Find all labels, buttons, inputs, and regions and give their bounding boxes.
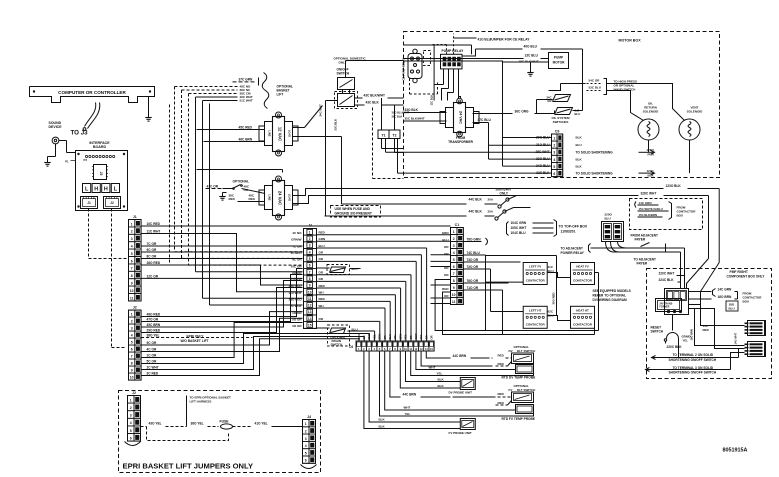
svg-text:OR: OR xyxy=(383,335,387,339)
svg-text:SHORTENING ON/OFF SWITCH: SHORTENING ON/OFF SWITCH xyxy=(669,358,717,362)
svg-text:2: 2 xyxy=(305,429,307,433)
svg-text:RED: RED xyxy=(498,392,505,396)
svg-text:BLK: BLK xyxy=(576,164,583,168)
svg-text:YEL: YEL xyxy=(419,334,423,340)
svg-text:6: 6 xyxy=(131,348,133,352)
svg-text:8: 8 xyxy=(131,274,133,278)
svg-text:123O BLK: 123O BLK xyxy=(666,184,682,188)
svg-text:P1: P1 xyxy=(65,160,69,164)
svg-text:JUMPER FOR CE RELAY: JUMPER FOR CE RELAY xyxy=(490,38,531,42)
svg-text:6: 6 xyxy=(453,265,455,269)
svg-text:RED: RED xyxy=(442,287,449,291)
svg-text:FRYER: FRYER xyxy=(635,238,646,242)
svg-text:WHT: WHT xyxy=(414,333,418,339)
svg-text:328C WHT: 328C WHT xyxy=(641,192,657,196)
svg-text:PUMP RELAY: PUMP RELAY xyxy=(442,49,465,53)
svg-text:5: 5 xyxy=(130,429,132,433)
svg-text:8051915A: 8051915A xyxy=(723,448,748,454)
svg-text:ONLY: ONLY xyxy=(500,192,509,196)
svg-text:43O YEL: 43O YEL xyxy=(149,422,162,426)
svg-text:PUR: PUR xyxy=(648,153,655,157)
svg-text:33O BLK: 33O BLK xyxy=(405,108,419,112)
svg-text:104C GRN: 104C GRN xyxy=(511,221,527,225)
svg-text:RED: RED xyxy=(498,362,505,366)
svg-text:RED: RED xyxy=(319,297,326,301)
svg-text:GRN: GRN xyxy=(319,237,326,241)
svg-text:TO SOLID SHORTENING: TO SOLID SHORTENING xyxy=(576,150,614,154)
svg-text:BLU: BLU xyxy=(352,328,358,332)
svg-text:FRYER: FRYER xyxy=(637,262,648,266)
svg-text:11: 11 xyxy=(308,297,312,301)
svg-text:220C BLK: 220C BLK xyxy=(667,345,683,349)
svg-text:OR: OR xyxy=(393,335,397,339)
svg-text:LINE: LINE xyxy=(268,131,272,137)
svg-text:1: 1 xyxy=(453,230,455,234)
svg-text:TRANSFORMER: TRANSFORMER xyxy=(448,140,473,144)
svg-text:T2: T2 xyxy=(393,133,397,137)
svg-text:YEL: YEL xyxy=(683,339,689,343)
svg-text:10: 10 xyxy=(452,293,456,297)
svg-text:W/O BASKET LIFT: W/O BASKET LIFT xyxy=(181,339,209,343)
svg-text:43C BLK/WHT: 43C BLK/WHT xyxy=(364,94,385,98)
svg-text:24 VAC: 24 VAC xyxy=(278,191,283,205)
svg-text:2C WHT: 2C WHT xyxy=(290,304,302,308)
svg-text:2: 2 xyxy=(131,230,133,234)
svg-text:YEL: YEL xyxy=(404,334,408,340)
svg-text:SWITCH: SWITCH xyxy=(651,330,664,334)
svg-text:TO SOLID SHORTENING: TO SOLID SHORTENING xyxy=(576,171,614,175)
svg-text:72O OR: 72O OR xyxy=(467,265,479,269)
svg-text:3: 3 xyxy=(553,151,555,155)
svg-text:SEE EQUIPPED MODELS: SEE EQUIPPED MODELS xyxy=(593,289,631,293)
svg-text:5: 5 xyxy=(131,341,133,345)
svg-text:7: 7 xyxy=(453,272,455,276)
svg-text:35C BLK/WHT: 35C BLK/WHT xyxy=(405,117,425,121)
svg-text:BLU: BLU xyxy=(575,112,581,116)
svg-text:LINE: LINE xyxy=(268,195,272,201)
svg-text:44C BLK: 44C BLK xyxy=(469,210,483,214)
svg-text:8: 8 xyxy=(453,279,455,283)
svg-text:USE WHEN FUSE AND: USE WHEN FUSE AND xyxy=(335,207,371,211)
svg-text:29O RED: 29O RED xyxy=(289,298,303,302)
svg-text:CONTACTOR: CONTACTOR xyxy=(526,279,546,283)
svg-text:10: 10 xyxy=(130,289,134,293)
svg-text:34C WHT: 34C WHT xyxy=(319,104,323,117)
svg-text:OR: OR xyxy=(362,335,366,339)
svg-text:73O OR: 73O OR xyxy=(467,258,479,262)
svg-text:1: 1 xyxy=(130,398,132,402)
svg-text:BLU: BLU xyxy=(388,334,392,340)
svg-text:1: 1 xyxy=(131,222,133,226)
svg-text:5: 5 xyxy=(553,165,555,169)
svg-text:BRN: BRN xyxy=(398,334,402,340)
svg-text:224C BLK: 224C BLK xyxy=(659,278,675,282)
svg-text:45C RED: 45C RED xyxy=(239,126,253,130)
svg-text:4: 4 xyxy=(553,158,555,162)
svg-text:1: 1 xyxy=(305,422,307,426)
svg-text:MOTOR BOX: MOTOR BOX xyxy=(619,39,642,43)
svg-text:13C BLU: 13C BLU xyxy=(525,54,539,58)
svg-text:BLK: BLK xyxy=(438,384,445,388)
svg-text:SWITCH: SWITCH xyxy=(331,343,343,347)
svg-text:WH: WH xyxy=(319,304,324,308)
svg-text:74C BLU: 74C BLU xyxy=(467,251,481,255)
svg-text:78O GRN: 78O GRN xyxy=(467,237,482,241)
svg-text:7: 7 xyxy=(131,355,133,359)
svg-text:BLK: BLK xyxy=(648,173,655,177)
svg-text:FV PROBE UNIT: FV PROBE UNIT xyxy=(449,431,472,435)
svg-text:J1: J1 xyxy=(133,215,137,219)
svg-text:20A: 20A xyxy=(488,198,494,202)
svg-text:6: 6 xyxy=(309,264,311,268)
svg-text:OR: OR xyxy=(430,335,434,339)
svg-text:BLU: BLU xyxy=(729,307,735,311)
svg-text:9: 9 xyxy=(309,284,311,288)
svg-text:9: 9 xyxy=(453,286,455,290)
svg-text:105C WHT: 105C WHT xyxy=(511,226,527,230)
svg-text:5: 5 xyxy=(453,258,455,262)
svg-text:28O RED: 28O RED xyxy=(289,284,303,288)
svg-text:10: 10 xyxy=(308,290,312,294)
svg-text:BRN: BRN xyxy=(378,334,382,340)
svg-text:RED: RED xyxy=(319,284,326,288)
svg-text:25C WHT: 25C WHT xyxy=(536,150,550,154)
svg-text:4: 4 xyxy=(305,444,307,448)
svg-text:H: H xyxy=(94,187,98,193)
svg-text:6: 6 xyxy=(131,259,133,263)
svg-text:C6: C6 xyxy=(349,345,353,349)
svg-text:LEFT FV: LEFT FV xyxy=(529,265,541,269)
svg-text:10: 10 xyxy=(130,376,134,380)
svg-text:6: 6 xyxy=(130,436,132,440)
svg-text:12: 12 xyxy=(308,304,312,308)
svg-text:1: 1 xyxy=(309,230,311,234)
svg-text:BLU: BLU xyxy=(319,244,325,248)
svg-text:15C WHT/H E/BLU: 15C WHT/H E/BLU xyxy=(639,207,663,211)
svg-text:12C BLK: 12C BLK xyxy=(430,95,434,106)
svg-text:YEL: YEL xyxy=(437,372,443,376)
svg-text:7: 7 xyxy=(131,267,133,271)
svg-text:C9: C9 xyxy=(555,130,560,134)
svg-text:OR: OR xyxy=(424,335,428,339)
svg-text:4: 4 xyxy=(453,251,455,255)
svg-text:37C GRN: 37C GRN xyxy=(239,78,254,82)
svg-text:BLK: BLK xyxy=(576,157,583,161)
svg-text:PUMP: PUMP xyxy=(554,56,564,60)
svg-text:38C BLK: 38C BLK xyxy=(392,115,403,119)
svg-text:125O: 125O xyxy=(647,148,655,152)
svg-text:J1: J1 xyxy=(87,201,91,205)
svg-text:T1: T1 xyxy=(382,133,386,137)
svg-text:9: 9 xyxy=(131,281,133,285)
svg-text:TO ADJACENT: TO ADJACENT xyxy=(561,247,584,251)
svg-text:8C OR: 8C OR xyxy=(292,258,302,262)
svg-text:TO TOP-OFF BOX: TO TOP-OFF BOX xyxy=(559,225,588,229)
svg-text:1: 1 xyxy=(553,137,555,141)
svg-text:BLK: BLK xyxy=(438,378,445,382)
svg-text:2: 2 xyxy=(309,237,311,241)
svg-text:H: H xyxy=(104,187,108,193)
svg-text:2: 2 xyxy=(453,237,455,241)
svg-text:6: 6 xyxy=(553,172,555,176)
svg-text:43C BLK: 43C BLK xyxy=(366,101,380,105)
svg-text:4: 4 xyxy=(131,244,133,248)
svg-text:BOX: BOX xyxy=(743,300,750,304)
svg-text:BOX: BOX xyxy=(677,214,684,218)
svg-text:BLK: BLK xyxy=(379,418,386,422)
svg-text:8: 8 xyxy=(131,362,133,366)
svg-text:FUSE: FUSE xyxy=(220,420,230,424)
svg-text:14: 14 xyxy=(308,317,312,321)
svg-text:46C BRN: 46C BRN xyxy=(239,138,253,142)
svg-text:54C OR: 54C OR xyxy=(589,79,601,83)
svg-text:30O RED: 30O RED xyxy=(552,293,556,305)
svg-text:FMF RIGHT: FMF RIGHT xyxy=(730,270,749,274)
svg-text:20A: 20A xyxy=(488,210,494,214)
svg-text:COMPONENT BOX ONLY: COMPONENT BOX ONLY xyxy=(727,275,766,279)
svg-text:3: 3 xyxy=(130,414,132,418)
svg-text:BLU: BLU xyxy=(576,143,582,147)
svg-text:J2: J2 xyxy=(133,306,137,310)
svg-text:51C WHT: 51C WHT xyxy=(240,99,253,103)
svg-text:CONTACTOR: CONTACTOR xyxy=(573,279,593,283)
svg-text:3O OR: 3O OR xyxy=(292,324,302,328)
svg-text:RED: RED xyxy=(367,334,371,340)
svg-text:37C BLU: 37C BLU xyxy=(478,118,492,122)
svg-text:3: 3 xyxy=(309,244,311,248)
svg-text:BLK: BLK xyxy=(576,136,583,140)
svg-text:5: 5 xyxy=(131,252,133,256)
svg-text:6: 6 xyxy=(305,459,307,463)
svg-text:1: 1 xyxy=(131,313,133,317)
svg-text:DVI WIRING DIAGRAM: DVI WIRING DIAGRAM xyxy=(593,298,628,302)
svg-text:EPRI BASKET LIFT JUMPERS O: EPRI BASKET LIFT JUMPERS ONLY xyxy=(123,462,254,471)
svg-text:GRN/W: GRN/W xyxy=(291,238,302,242)
svg-text:104C BLU: 104C BLU xyxy=(511,231,527,235)
svg-text:5O OR: 5O OR xyxy=(292,317,302,321)
svg-text:WH: WH xyxy=(319,291,324,295)
svg-text:13: 13 xyxy=(308,310,312,314)
svg-text:WHT: WHT xyxy=(429,366,436,370)
svg-text:OR: OR xyxy=(409,335,413,339)
svg-text:36C ORG: 36C ORG xyxy=(515,110,530,114)
svg-text:2: 2 xyxy=(131,320,133,324)
svg-text:BOARD: BOARD xyxy=(93,145,107,149)
svg-text:15C BLK/BRN: 15C BLK/BRN xyxy=(639,213,658,217)
svg-text:14C GRN: 14C GRN xyxy=(639,201,652,205)
svg-text:11: 11 xyxy=(130,296,134,300)
svg-text:53C BLU: 53C BLU xyxy=(589,86,602,90)
svg-text:LOAD: LOAD xyxy=(288,130,292,137)
svg-text:16O BRN: 16O BRN xyxy=(718,295,733,299)
svg-text:MOTOR: MOTOR xyxy=(553,61,566,65)
svg-text:CONTACTOR: CONTACTOR xyxy=(526,322,546,326)
svg-text:P3: P3 xyxy=(84,158,88,162)
svg-text:11083201: 11083201 xyxy=(561,230,576,234)
svg-text:GROUND 3/O PRESENT: GROUND 3/O PRESENT xyxy=(335,212,372,216)
svg-text:RED: RED xyxy=(703,328,710,332)
svg-text:11O WHT: 11O WHT xyxy=(288,291,301,295)
svg-text:YEL: YEL xyxy=(405,412,411,416)
svg-text:2: 2 xyxy=(553,144,555,148)
svg-text:YEL: YEL xyxy=(372,334,376,340)
svg-text:BLK: BLK xyxy=(379,425,386,429)
svg-text:71O OR: 71O OR xyxy=(467,286,479,290)
svg-text:3: 3 xyxy=(453,244,455,248)
svg-text:44C BRN: 44C BRN xyxy=(403,393,417,397)
svg-text:BLU: BLU xyxy=(357,334,361,340)
svg-text:3: 3 xyxy=(131,237,133,241)
svg-text:4: 4 xyxy=(131,334,133,338)
svg-text:RED: RED xyxy=(498,401,505,405)
svg-text:RED: RED xyxy=(229,197,236,201)
svg-text:GRN: GRN xyxy=(442,231,449,235)
svg-text:44C BLK: 44C BLK xyxy=(469,198,483,202)
svg-text:DEVICE: DEVICE xyxy=(49,125,63,129)
svg-text:WHT: WHT xyxy=(404,406,411,410)
svg-text:40O BLU: 40O BLU xyxy=(524,45,538,49)
svg-text:3: 3 xyxy=(131,327,133,331)
svg-text:SOLENOID: SOLENOID xyxy=(687,110,704,114)
svg-text:12O OR: 12O OR xyxy=(290,278,302,282)
svg-text:2: 2 xyxy=(130,406,132,410)
svg-text:24V TRANS-: 24V TRANS- xyxy=(660,303,674,306)
svg-text:LOAD: LOAD xyxy=(288,194,292,201)
svg-text:7: 7 xyxy=(309,270,311,274)
svg-text:OPTIONAL: OPTIONAL xyxy=(233,180,250,184)
svg-text:5: 5 xyxy=(305,451,307,455)
svg-text:5: 5 xyxy=(309,257,311,261)
svg-text:J4: J4 xyxy=(307,415,311,419)
svg-text:CONTACTOR: CONTACTOR xyxy=(573,322,593,326)
svg-text:DLT SWITCH: DLT SWITCH xyxy=(517,349,535,353)
svg-text:J4: J4 xyxy=(308,224,312,228)
svg-text:14C GRN: 14C GRN xyxy=(718,288,733,292)
svg-text:LIFT: LIFT xyxy=(277,93,284,97)
svg-text:J2: J2 xyxy=(110,201,114,205)
svg-text:4C NO: 4C NO xyxy=(292,231,302,235)
svg-text:HEAT HT: HEAT HT xyxy=(576,308,589,312)
svg-text:RTD FV TEMP PROBE: RTD FV TEMP PROBE xyxy=(502,417,535,421)
svg-text:47C OR: 47C OR xyxy=(207,185,219,189)
svg-text:4: 4 xyxy=(309,250,311,254)
svg-text:124C: 124C xyxy=(647,169,655,173)
svg-text:LEFT HT: LEFT HT xyxy=(529,308,541,312)
svg-text:41O YEL: 41O YEL xyxy=(255,422,268,426)
svg-text:1O OR: 1O OR xyxy=(292,311,302,315)
svg-text:DV: DV xyxy=(509,349,513,353)
svg-text:10C OR: 10C OR xyxy=(291,264,303,268)
svg-text:11: 11 xyxy=(452,300,456,304)
svg-text:4: 4 xyxy=(130,421,132,425)
svg-text:220C WHT: 220C WHT xyxy=(659,272,675,276)
svg-text:RED: RED xyxy=(249,197,256,201)
svg-text:FORMER: FORMER xyxy=(660,307,670,309)
svg-text:COMPUTER OR CONTROLLER: COMPUTER OR CONTROLLER xyxy=(58,90,126,95)
svg-text:RTD DV TEMP PROBE: RTD DV TEMP PROBE xyxy=(502,376,536,380)
svg-text:TO TERMINAL 2 ON SOLID: TO TERMINAL 2 ON SOLID xyxy=(673,353,714,357)
svg-text:FV: FV xyxy=(509,388,513,392)
svg-text:7C OR: 7C OR xyxy=(292,244,302,248)
svg-text:J2: J2 xyxy=(132,391,136,395)
svg-text:22C BLK: 22C BLK xyxy=(536,171,550,175)
svg-text:J3: J3 xyxy=(99,172,103,176)
svg-text:4C BLU: 4C BLU xyxy=(291,251,302,255)
svg-text:LIFT HARNESS: LIFT HARNESS xyxy=(190,400,212,404)
svg-text:BLU: BLU xyxy=(442,238,448,242)
svg-text:24 VAC: 24 VAC xyxy=(459,111,463,124)
svg-text:3: 3 xyxy=(305,437,307,441)
svg-text:REFER TO OPTIONAL: REFER TO OPTIONAL xyxy=(593,294,626,298)
svg-text:38O YEL: 38O YEL xyxy=(191,422,204,426)
svg-text:53C BLK: 53C BLK xyxy=(334,119,338,131)
svg-text:DLT SWITCH: DLT SWITCH xyxy=(517,388,535,392)
svg-text:POWER RELAY: POWER RELAY xyxy=(561,251,585,255)
svg-text:SWITCH: SWITCH xyxy=(337,72,350,76)
svg-text:76O OR: 76O OR xyxy=(467,279,479,283)
svg-text:SWITCHES: SWITCHES xyxy=(553,120,569,124)
svg-text:SHORTENING ON/OFF SWITCH: SHORTENING ON/OFF SWITCH xyxy=(669,371,717,375)
svg-text:RED: RED xyxy=(319,231,326,235)
svg-text:9O OR: 9O OR xyxy=(292,271,302,275)
svg-text:15: 15 xyxy=(308,324,312,328)
svg-text:9: 9 xyxy=(131,369,133,373)
svg-text:RED: RED xyxy=(498,354,505,358)
svg-text:8: 8 xyxy=(309,277,311,281)
svg-text:14O WHT: 14O WHT xyxy=(734,333,738,345)
svg-text:C1: C1 xyxy=(455,223,460,227)
svg-text:HEAT FV: HEAT FV xyxy=(576,265,589,269)
svg-text:12 VAC: 12 VAC xyxy=(278,127,283,141)
svg-text:DV PROBE UNIT: DV PROBE UNIT xyxy=(449,391,473,395)
svg-text:BLU: BLU xyxy=(605,217,611,221)
svg-text:SOLENOID: SOLENOID xyxy=(643,110,660,114)
svg-text:44C BRN: 44C BRN xyxy=(453,354,467,358)
